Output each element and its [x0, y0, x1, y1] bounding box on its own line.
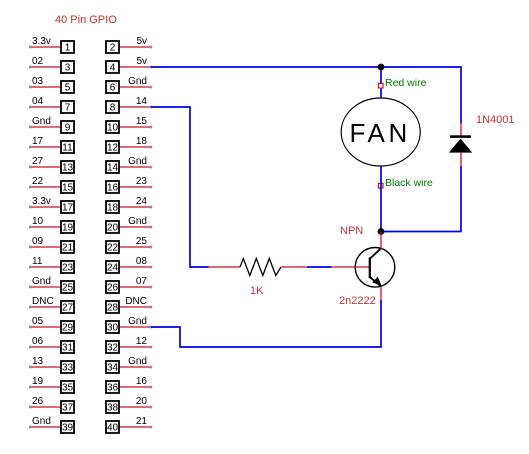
svg-text:10: 10 — [32, 216, 44, 227]
svg-text:15: 15 — [136, 116, 148, 127]
connector J1 pin 35 (19) — [29, 376, 74, 394]
svg-text:DNC: DNC — [125, 296, 147, 307]
connector J1 pin 11 (17) — [29, 136, 74, 154]
svg-text:15: 15 — [62, 183, 74, 194]
svg-text:1N4001: 1N4001 — [476, 114, 515, 126]
junction node A — [378, 64, 385, 71]
connector J1 pin 29 (05) — [29, 316, 74, 334]
svg-text:Red wire: Red wire — [385, 77, 427, 89]
svg-text:8: 8 — [110, 103, 116, 114]
svg-text:02: 02 — [32, 56, 44, 67]
svg-text:39: 39 — [62, 423, 74, 434]
svg-text:27: 27 — [32, 156, 44, 167]
svg-text:25: 25 — [62, 283, 74, 294]
svg-text:5: 5 — [65, 83, 71, 94]
svg-text:07: 07 — [136, 276, 148, 287]
connector J1 pin 18 (24) — [106, 196, 152, 214]
svg-text:6: 6 — [110, 83, 116, 94]
wire: diode bottom to node B — [381, 166, 461, 232]
connector J1 pin 2 (5v) — [106, 36, 152, 54]
connector J1 pin 15 (22) — [29, 176, 74, 194]
connector J1 pin 16 (23) — [106, 176, 152, 194]
connector J1 pin 30 (Gnd) — [106, 316, 152, 334]
fan M1 (motor circle) — [341, 98, 420, 166]
svg-text:3.3v: 3.3v — [32, 196, 51, 207]
svg-text:Gnd: Gnd — [128, 316, 147, 327]
svg-text:3: 3 — [65, 63, 71, 74]
svg-text:31: 31 — [62, 343, 74, 354]
svg-text:16: 16 — [136, 376, 148, 387]
connector J1 pin 24 (08) — [106, 256, 152, 274]
connector J1 pin 14 (Gnd) — [106, 156, 152, 174]
connector J1 pin 40 (21) — [106, 416, 152, 434]
connector J1 pin 17 (3.3v) — [29, 196, 74, 214]
svg-text:34: 34 — [107, 363, 119, 374]
svg-text:Gnd: Gnd — [128, 216, 147, 227]
svg-text:2n2222: 2n2222 — [339, 295, 376, 307]
connector J1 pin 6 (Gnd) — [106, 76, 152, 94]
wire: resistor R1 to transistor base — [307, 266, 332, 268]
svg-text:1K: 1K — [250, 285, 264, 297]
svg-text:28: 28 — [107, 303, 119, 314]
connector J1 pin 8 (14) — [106, 96, 152, 114]
wire: node A down to fan red terminal — [380, 67, 382, 98]
svg-text:25: 25 — [136, 236, 148, 247]
terminal square: fan black wire — [378, 183, 383, 188]
svg-text:03: 03 — [32, 76, 44, 87]
svg-text:12: 12 — [107, 143, 119, 154]
connector J1 pin 3 (02) — [29, 56, 74, 74]
svg-text:3.3v: 3.3v — [32, 36, 51, 47]
connector J1 pin 20 (Gnd) — [106, 216, 152, 234]
connector J1 pin 4 (5v) — [106, 56, 152, 74]
svg-text:Gnd: Gnd — [32, 116, 51, 127]
wire: fan black wire down to node B — [380, 166, 382, 232]
connector J1 pin 32 (12) — [106, 336, 152, 354]
svg-text:09: 09 — [32, 236, 44, 247]
terminal square: fan red wire — [378, 83, 383, 88]
svg-text:18: 18 — [136, 136, 148, 147]
svg-text:Gnd: Gnd — [128, 156, 147, 167]
svg-text:24: 24 — [107, 263, 119, 274]
wire: pin 8 (GPIO14) to resistor R1 — [151, 107, 209, 267]
svg-text:37: 37 — [62, 403, 74, 414]
svg-text:9: 9 — [65, 123, 71, 134]
svg-text:40 Pin GPIO: 40 Pin GPIO — [55, 14, 117, 26]
svg-text:Gnd: Gnd — [128, 76, 147, 87]
svg-text:06: 06 — [32, 336, 44, 347]
svg-text:23: 23 — [62, 263, 74, 274]
svg-text:13: 13 — [32, 356, 44, 367]
svg-text:Gnd: Gnd — [32, 276, 51, 287]
svg-text:32: 32 — [107, 343, 119, 354]
svg-text:18: 18 — [107, 203, 119, 214]
svg-text:22: 22 — [107, 243, 119, 254]
svg-text:12: 12 — [136, 336, 148, 347]
svg-text:Gnd: Gnd — [32, 416, 51, 427]
svg-text:26: 26 — [107, 283, 119, 294]
wire: transistor emitter to pin 30 (Gnd) — [151, 300, 381, 347]
svg-text:26: 26 — [32, 396, 44, 407]
wire: pin 4 (5v) to node A — [151, 66, 381, 68]
connector J1 pin 34 (Gnd) — [106, 356, 152, 374]
svg-text:40: 40 — [107, 423, 119, 434]
resistor R1 — [209, 259, 308, 276]
svg-text:22: 22 — [32, 176, 44, 187]
connector J1 pin 27 (DNC) — [29, 296, 74, 314]
svg-text:FAN: FAN — [350, 118, 411, 148]
svg-text:14: 14 — [107, 163, 119, 174]
svg-text:19: 19 — [62, 223, 74, 234]
svg-text:14: 14 — [136, 96, 148, 107]
svg-text:4: 4 — [110, 63, 116, 74]
diode D1 1N4001 — [449, 123, 472, 166]
svg-text:05: 05 — [32, 316, 44, 327]
svg-text:29: 29 — [62, 323, 74, 334]
connector J1 pin 5 (03) — [29, 76, 74, 94]
svg-text:04: 04 — [32, 96, 44, 107]
svg-text:08: 08 — [136, 256, 148, 267]
svg-text:DNC: DNC — [32, 296, 54, 307]
svg-text:35: 35 — [62, 383, 74, 394]
connector J1 pin 7 (04) — [29, 96, 74, 114]
svg-text:7: 7 — [65, 103, 71, 114]
svg-text:20: 20 — [136, 396, 148, 407]
connector J1 pin 21 (09) — [29, 236, 74, 254]
connector J1 pin 33 (13) — [29, 356, 74, 374]
svg-text:27: 27 — [62, 303, 74, 314]
svg-text:11: 11 — [32, 256, 43, 267]
connector J1 pin 37 (26) — [29, 396, 74, 414]
svg-text:17: 17 — [62, 203, 74, 214]
svg-text:30: 30 — [107, 323, 119, 334]
svg-text:17: 17 — [32, 136, 44, 147]
connector J1 pin 38 (20) — [106, 396, 152, 414]
connector J1 pin 39 (Gnd) — [29, 416, 74, 434]
connector J1 pin 9 (Gnd) — [29, 116, 74, 134]
junction node B — [378, 228, 385, 235]
svg-text:2: 2 — [110, 43, 116, 54]
wire: node A to diode top — [381, 67, 461, 124]
connector J1 pin 26 (07) — [106, 276, 152, 294]
svg-text:36: 36 — [107, 383, 119, 394]
connector J1 pin 12 (18) — [106, 136, 152, 154]
connector J1 pin 28 (DNC) — [106, 296, 152, 314]
svg-text:21: 21 — [62, 243, 74, 254]
svg-text:NPN: NPN — [340, 225, 363, 237]
svg-text:16: 16 — [107, 183, 119, 194]
connector J1 pin 25 (Gnd) — [29, 276, 74, 294]
svg-text:33: 33 — [62, 363, 74, 374]
svg-text:5v: 5v — [136, 56, 147, 67]
svg-text:10: 10 — [107, 123, 119, 134]
connector J1 pin 1 (3.3v) — [29, 36, 74, 54]
svg-text:24: 24 — [136, 196, 148, 207]
connector J1 pin 10 (15) — [106, 116, 152, 134]
connector J1 pin 23 (11) — [29, 256, 74, 274]
connector J1 pin 36 (16) — [106, 376, 152, 394]
svg-text:5v: 5v — [136, 36, 147, 47]
svg-text:38: 38 — [107, 403, 119, 414]
svg-text:23: 23 — [136, 176, 148, 187]
transistor Q1 2n2222 (NPN) — [332, 232, 395, 301]
svg-text:19: 19 — [32, 376, 44, 387]
connector J1 pin 31 (06) — [29, 336, 74, 354]
svg-text:Gnd: Gnd — [128, 356, 147, 367]
svg-text:1: 1 — [65, 43, 71, 54]
connector J1 pin 22 (25) — [106, 236, 152, 254]
svg-text:11: 11 — [62, 143, 73, 154]
svg-text:Black wire: Black wire — [385, 177, 433, 189]
svg-text:21: 21 — [136, 416, 148, 427]
connector J1 pin 13 (27) — [29, 156, 74, 174]
connector J1 pin 19 (10) — [29, 216, 74, 234]
svg-text:20: 20 — [107, 223, 119, 234]
svg-text:13: 13 — [62, 163, 74, 174]
